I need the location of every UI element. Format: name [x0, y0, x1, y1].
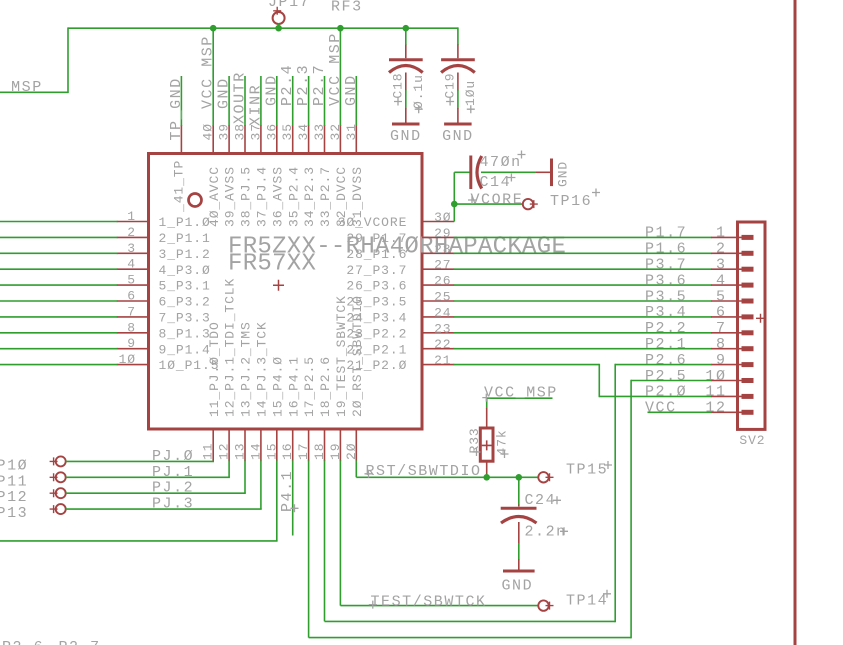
svg-text:GND: GND: [263, 74, 280, 106]
svg-text:9_P1.4: 9_P1.4: [159, 342, 211, 357]
wire: [339, 28, 341, 126]
pin 40 stub: [212, 125, 214, 154]
svg-text:29: 29: [434, 226, 451, 241]
wire: [325, 620, 616, 622]
wire stub: [324, 76, 326, 126]
pin 27 stub: [422, 268, 454, 270]
pin 26 stub: [422, 284, 454, 286]
pin 4 stub: [117, 268, 149, 270]
svg-text:31_DVSS: 31_DVSS: [350, 166, 365, 227]
svg-text:11: 11: [705, 384, 726, 401]
node VCC_MSP label cross: [482, 394, 490, 402]
svg-text:2Ø_RST_SBWTDIO: 2Ø_RST_SBWTDIO: [350, 295, 365, 417]
svg-text:2: 2: [716, 241, 727, 258]
node RST label cross: [365, 470, 373, 478]
pin 21 stub: [422, 364, 454, 366]
svg-text:3_P1.2: 3_P1.2: [159, 247, 211, 262]
pin 20 stub: [355, 429, 357, 461]
pin 24 stub: [422, 316, 454, 318]
svg-text:17_P2.5: 17_P2.5: [302, 356, 317, 417]
junction C24-RST: [516, 474, 523, 481]
svg-text:P2.Ø: P2.Ø: [645, 384, 687, 401]
svg-text:1Øu: 1Øu: [463, 80, 478, 106]
ground GND at C14: [536, 159, 571, 188]
svg-text:2Ø: 2Ø: [344, 443, 359, 460]
svg-text:18: 18: [312, 443, 327, 460]
pin 34 stub: [308, 125, 310, 154]
svg-text:47k: 47k: [495, 429, 510, 455]
pin 12 SV2: [711, 411, 754, 413]
wire P4.1 stub from pin 16: [292, 460, 294, 535]
pin 6 SV2: [711, 316, 754, 318]
svg-text:C18: C18: [390, 72, 405, 98]
connector SV2 body: [738, 222, 766, 448]
pin 2 SV2: [711, 252, 754, 254]
wire net PJ.2: [66, 492, 246, 494]
svg-text:5: 5: [716, 288, 727, 305]
svg-text:14_PJ.3_TCK: 14_PJ.3_TCK: [255, 321, 270, 417]
svg-text:XINR: XINR: [247, 84, 264, 126]
pin 35 stub: [292, 125, 294, 154]
pin 3 SV2: [711, 268, 754, 270]
svg-text:2.2n: 2.2n: [525, 524, 567, 541]
pin 8 stub: [117, 332, 149, 334]
svg-text:GND: GND: [216, 77, 233, 109]
svg-text:24: 24: [434, 305, 451, 320]
wire: [518, 477, 520, 505]
junction R33-RST: [483, 474, 490, 481]
svg-text:P2.7: P2.7: [311, 64, 328, 106]
pin 28 stub: [422, 252, 454, 254]
pin 2 stub: [117, 236, 149, 238]
pin 14 stub: [260, 429, 262, 461]
svg-text:P2.3: P2.3: [295, 64, 312, 106]
svg-text:GND: GND: [390, 128, 422, 145]
wire net pin 9: [0, 348, 118, 350]
wire VCORE to TP16: [454, 203, 523, 205]
pin 5 SV2: [711, 300, 754, 302]
svg-text:15_P4.Ø: 15_P4.Ø: [270, 356, 285, 417]
svg-text:1Ø: 1Ø: [705, 368, 726, 385]
svg-text:TP14: TP14: [566, 593, 608, 610]
svg-text:13: 13: [233, 443, 248, 460]
svg-text:34_P2.3: 34_P2.3: [302, 166, 317, 227]
wire stub: [260, 76, 262, 126]
svg-text:8_P1.3: 8_P1.3: [159, 326, 211, 341]
wire net pin 6: [0, 300, 118, 302]
svg-text:26_P3.6: 26_P3.6: [346, 279, 407, 294]
svg-text:7_P3.3: 7_P3.3: [159, 311, 211, 326]
wire stub: [244, 76, 246, 126]
svg-text:47Øn: 47Øn: [480, 154, 522, 171]
pin 37 stub: [260, 125, 262, 154]
svg-text:TP12: TP12: [0, 489, 28, 506]
testpoint TP14: [538, 590, 611, 611]
pin 22 stub: [422, 348, 454, 350]
wire net pin 2: [0, 236, 118, 238]
node TEST label cross: [369, 601, 377, 609]
wire net pin 7: [0, 316, 118, 318]
svg-text:17: 17: [296, 443, 311, 460]
svg-text:33_P2.7: 33_P2.7: [318, 166, 333, 227]
svg-text:35_P2.4: 35_P2.4: [286, 166, 301, 227]
svg-text:P2.5: P2.5: [645, 368, 687, 385]
wire: [457, 27, 459, 44]
svg-text:Ø.1u: Ø.1u: [411, 74, 426, 109]
wire: [598, 364, 600, 397]
svg-text:13_PJ.2_TMS: 13_PJ.2_TMS: [239, 321, 254, 417]
svg-text:36_AVSS: 36_AVSS: [270, 166, 285, 227]
wire: [278, 23, 280, 28]
svg-text:9: 9: [716, 352, 727, 369]
svg-text:18_P2.6: 18_P2.6: [318, 356, 333, 417]
pin 5 stub: [117, 284, 149, 286]
svg-text:8: 8: [127, 320, 136, 335]
svg-text:TP13: TP13: [0, 505, 28, 522]
svg-text:P2.7: P2.7: [59, 639, 101, 645]
op-amp U1 MSP430 FR57XX body: [149, 154, 567, 430]
wire: [0, 91, 68, 93]
svg-text:TP11: TP11: [0, 473, 28, 490]
svg-text:28_P1.6: 28_P1.6: [346, 247, 407, 262]
wire P2.0 from pin 21: [454, 364, 600, 366]
pin 12 stub: [228, 429, 230, 461]
pin 9 SV2: [711, 364, 754, 366]
pin 10 SV2: [711, 380, 754, 382]
svg-text:12_PJ.1_TDI_TCLK: 12_PJ.1_TDI_TCLK: [223, 278, 238, 417]
pin 18 stub: [324, 429, 326, 461]
svg-text:P3.5: P3.5: [645, 288, 687, 305]
svg-text:38_PJ.5: 38_PJ.5: [239, 166, 254, 227]
resistor R33: [467, 408, 510, 477]
wire: [454, 171, 469, 173]
pin 9 stub: [117, 348, 149, 350]
svg-text:P2.4: P2.4: [279, 64, 296, 106]
svg-text:32_DVCC: 32_DVCC: [334, 166, 349, 227]
svg-text:C19: C19: [442, 72, 457, 98]
wire: [457, 90, 459, 109]
junction VCORE: [451, 201, 458, 208]
svg-text:GND: GND: [556, 161, 571, 187]
svg-text:1_P1.Ø: 1_P1.Ø: [159, 215, 211, 230]
svg-text:23: 23: [434, 321, 451, 336]
svg-text:12: 12: [705, 400, 726, 417]
testpoint JP17: [268, 0, 310, 24]
svg-text:VCC_MSP: VCC_MSP: [484, 385, 558, 402]
pin 17 stub: [308, 429, 310, 461]
pin 30 stub: [422, 221, 454, 223]
wire VCC stub to SV2 pin 12: [648, 411, 712, 413]
pin 10 stub: [117, 364, 149, 366]
svg-text:C24: C24: [525, 492, 557, 509]
svg-text:22: 22: [434, 337, 451, 352]
frame border right: [794, 0, 797, 645]
pin 15 stub: [276, 429, 278, 461]
svg-text:12: 12: [217, 443, 232, 460]
wire net pin 1: [0, 221, 118, 223]
pin 31 stub: [355, 125, 357, 154]
svg-text:3: 3: [716, 257, 727, 274]
wire P2.6 to SV2 pin 9: [615, 364, 711, 366]
svg-text:29_P1.7: 29_P1.7: [346, 231, 407, 246]
svg-text:_41_TP: _41_TP: [172, 160, 187, 213]
svg-text:P4.1: P4.1: [279, 470, 296, 512]
svg-text:4: 4: [127, 257, 136, 272]
svg-text:RF3: RF3: [331, 0, 363, 16]
svg-text:SV2: SV2: [739, 433, 765, 448]
capacitor C19: [441, 44, 478, 113]
svg-text:GND: GND: [501, 578, 533, 595]
svg-text:GND: GND: [343, 74, 360, 106]
wire P net pin 29: [454, 236, 712, 238]
svg-text:5: 5: [127, 273, 136, 288]
wire: [405, 28, 407, 45]
pin 41 thermal pad ring: [172, 160, 202, 213]
wire net PJ.1: [66, 476, 230, 478]
wire P2.5 from pin 17: [308, 460, 310, 637]
wire P4.0 from pin 15: [276, 460, 278, 541]
svg-text:VCC_MSP: VCC_MSP: [200, 35, 217, 109]
wire: [599, 395, 711, 397]
wire: [244, 460, 246, 493]
junction C18-rail: [403, 25, 410, 32]
pin 39 stub: [228, 125, 230, 154]
wire net pin 3: [0, 252, 118, 254]
svg-text:C14: C14: [480, 174, 512, 191]
svg-text:2: 2: [127, 225, 136, 240]
svg-text:16_P4.1: 16_P4.1: [286, 356, 301, 417]
svg-text:39_AVSS: 39_AVSS: [223, 166, 238, 227]
svg-text:27_P3.7: 27_P3.7: [346, 263, 407, 278]
svg-text:PJ.2: PJ.2: [152, 480, 194, 497]
pin 13 stub: [244, 429, 246, 461]
ground GND at C24: [501, 559, 534, 595]
pin TP stub: [180, 125, 182, 154]
testpoint TP10: [0, 456, 66, 474]
wire net pin 4: [0, 268, 118, 270]
wire stub: [308, 76, 310, 126]
wire: [356, 476, 538, 478]
svg-text:5_P3.1: 5_P3.1: [159, 279, 211, 294]
wire net pin 5: [0, 284, 118, 286]
svg-text:16: 16: [280, 443, 295, 460]
svg-text:1: 1: [716, 225, 727, 242]
wire: [405, 90, 407, 109]
svg-text:27: 27: [434, 258, 451, 273]
wire P net pin 24: [454, 316, 712, 318]
wire P2.6 from pin 18: [324, 460, 326, 621]
wire net PJ.0: [66, 460, 214, 462]
ground GND at C18: [390, 108, 422, 145]
pin 32 stub: [339, 125, 341, 154]
wire: [518, 543, 520, 560]
wire P net pin 28: [454, 252, 712, 254]
wire: [309, 637, 631, 639]
svg-text:R33: R33: [467, 427, 482, 453]
svg-text:XOUTR: XOUTR: [232, 71, 249, 124]
svg-text:15: 15: [264, 443, 279, 460]
svg-text:P2.6: P2.6: [2, 639, 44, 645]
pin 33 stub: [324, 125, 326, 154]
svg-text:21: 21: [434, 353, 451, 368]
wire RST/SBWTDIO from pin 20: [355, 460, 357, 477]
ground GND at C19: [442, 108, 474, 145]
svg-text:6: 6: [127, 289, 136, 304]
pin 7 stub: [117, 316, 149, 318]
wire net pin 10: [0, 364, 118, 366]
svg-text:VCC_MSP: VCC_MSP: [327, 32, 344, 106]
wire P2.5 to SV2 pin 10: [631, 380, 711, 382]
svg-text:3Ø: 3Ø: [434, 210, 451, 225]
pin 11 SV2: [711, 395, 754, 397]
svg-text:P3.4: P3.4: [645, 304, 687, 321]
svg-text:P2.1: P2.1: [645, 336, 687, 353]
testpoint TP11: [0, 472, 66, 490]
pin 1 stub: [117, 221, 149, 223]
svg-text:14: 14: [248, 443, 263, 460]
testpoint TP16: [523, 189, 600, 211]
wire: [614, 364, 616, 622]
wire P net pin 22: [454, 348, 712, 350]
svg-text:P2.6: P2.6: [645, 352, 687, 369]
wire: [486, 398, 488, 408]
pin 29 stub: [422, 236, 454, 238]
svg-text:7: 7: [127, 304, 136, 319]
pin 11 stub: [212, 429, 214, 461]
svg-text:37_PJ.4: 37_PJ.4: [255, 166, 270, 227]
svg-text:TEST/SBWTCK: TEST/SBWTCK: [371, 593, 487, 610]
svg-text:25: 25: [434, 290, 451, 305]
svg-text:9: 9: [127, 336, 136, 351]
svg-text:FR57XX: FR57XX: [228, 251, 316, 278]
wire net pin 8: [0, 332, 118, 334]
svg-text:PJ.Ø: PJ.Ø: [152, 448, 194, 465]
wire TEST/SBWTCK from pin 19: [339, 460, 341, 605]
wire P net pin 23: [454, 332, 712, 334]
svg-text:1Ø: 1Ø: [119, 352, 136, 367]
pin 16 stub: [292, 429, 294, 461]
svg-text:GND: GND: [442, 128, 474, 145]
pin 3 stub: [117, 252, 149, 254]
junction: [337, 25, 344, 32]
wire stub: [276, 76, 278, 126]
svg-text:P2.2: P2.2: [645, 320, 687, 337]
svg-text:JP17: JP17: [268, 0, 310, 11]
wire: [260, 460, 262, 509]
svg-text:RST/SBWTDIO: RST/SBWTDIO: [366, 463, 482, 480]
wire stub: [355, 76, 357, 126]
wire: [212, 28, 214, 126]
svg-text:VCORE: VCORE: [471, 192, 524, 209]
testpoint TP13: [0, 504, 66, 522]
wire: [481, 171, 536, 173]
wire P net pin 25: [454, 300, 712, 302]
wire stub: [292, 76, 294, 126]
svg-text:P3.6: P3.6: [645, 272, 687, 289]
node VCORE label cross: [468, 196, 476, 204]
wire stub: [228, 76, 230, 126]
junction JP17-rail: [275, 25, 282, 32]
wire P net pin 26: [454, 284, 712, 286]
svg-text:11_PJ.Ø_TDO: 11_PJ.Ø_TDO: [207, 321, 222, 417]
capacitor C18: [389, 44, 426, 113]
svg-text:28: 28: [434, 242, 451, 257]
pin 19 stub: [339, 429, 341, 461]
testpoint TP15: [538, 461, 612, 482]
svg-text:TP16: TP16: [550, 193, 592, 210]
wire net PJ.3: [66, 508, 262, 510]
svg-text:TP15: TP15: [566, 462, 608, 479]
svg-text:TP1Ø: TP1Ø: [0, 457, 28, 474]
svg-text:PJ.3: PJ.3: [152, 496, 194, 513]
pin 1 SV2: [711, 236, 754, 238]
wire: [0, 540, 278, 542]
svg-text:26: 26: [434, 274, 451, 289]
wire VCC_MSP stub at R33: [487, 397, 553, 399]
svg-text:19_TEST_SBWTCK: 19_TEST_SBWTCK: [334, 295, 349, 417]
node U1 origin cross: [273, 280, 284, 291]
junction: [210, 25, 217, 32]
pin 8 SV2: [711, 348, 754, 350]
wire top VCC_MSP rail: [68, 27, 458, 29]
wire: [340, 605, 538, 607]
svg-text:1: 1: [127, 209, 136, 224]
pin 6 stub: [117, 300, 149, 302]
wire: [67, 27, 69, 93]
svg-text:4_P3.Ø: 4_P3.Ø: [159, 263, 211, 278]
svg-text:2_P1.1: 2_P1.1: [159, 231, 211, 246]
svg-text:4: 4: [716, 272, 727, 289]
pin 25 stub: [422, 300, 454, 302]
svg-text:C_MSP: C_MSP: [0, 79, 43, 96]
svg-text:8: 8: [716, 336, 727, 353]
pin 23 stub: [422, 332, 454, 334]
svg-text:TP_GND: TP_GND: [168, 77, 185, 140]
pin 38 stub: [244, 125, 246, 154]
capacitor C14: [470, 151, 526, 192]
capacitor C24: [501, 492, 568, 544]
wire: [630, 380, 632, 639]
svg-text:PJ.1: PJ.1: [152, 464, 194, 481]
svg-text:P1.6: P1.6: [645, 241, 687, 258]
node P4.1 label cross: [291, 504, 299, 512]
pin 4 SV2: [711, 284, 754, 286]
svg-text:19: 19: [328, 443, 343, 460]
svg-text:7: 7: [716, 320, 727, 337]
svg-text:P3.7: P3.7: [645, 257, 687, 274]
svg-text:11: 11: [201, 443, 216, 460]
node SV2 origin cross: [756, 314, 765, 323]
wire: [228, 460, 230, 477]
pin 36 stub: [276, 125, 278, 154]
svg-text:VCC: VCC: [645, 400, 677, 417]
testpoint TP12: [0, 488, 66, 506]
pin 7 SV2: [711, 332, 754, 334]
wire P net pin 27: [454, 268, 712, 270]
svg-text:3: 3: [127, 241, 136, 256]
svg-text:4Ø_AVCC: 4Ø_AVCC: [207, 166, 222, 227]
wire TP_GND stub: [180, 76, 182, 126]
svg-text:6: 6: [716, 304, 727, 321]
wire VCORE vertical: [453, 172, 455, 221]
svg-text:6_P3.2: 6_P3.2: [159, 295, 211, 310]
svg-text:P1.7: P1.7: [645, 225, 687, 242]
